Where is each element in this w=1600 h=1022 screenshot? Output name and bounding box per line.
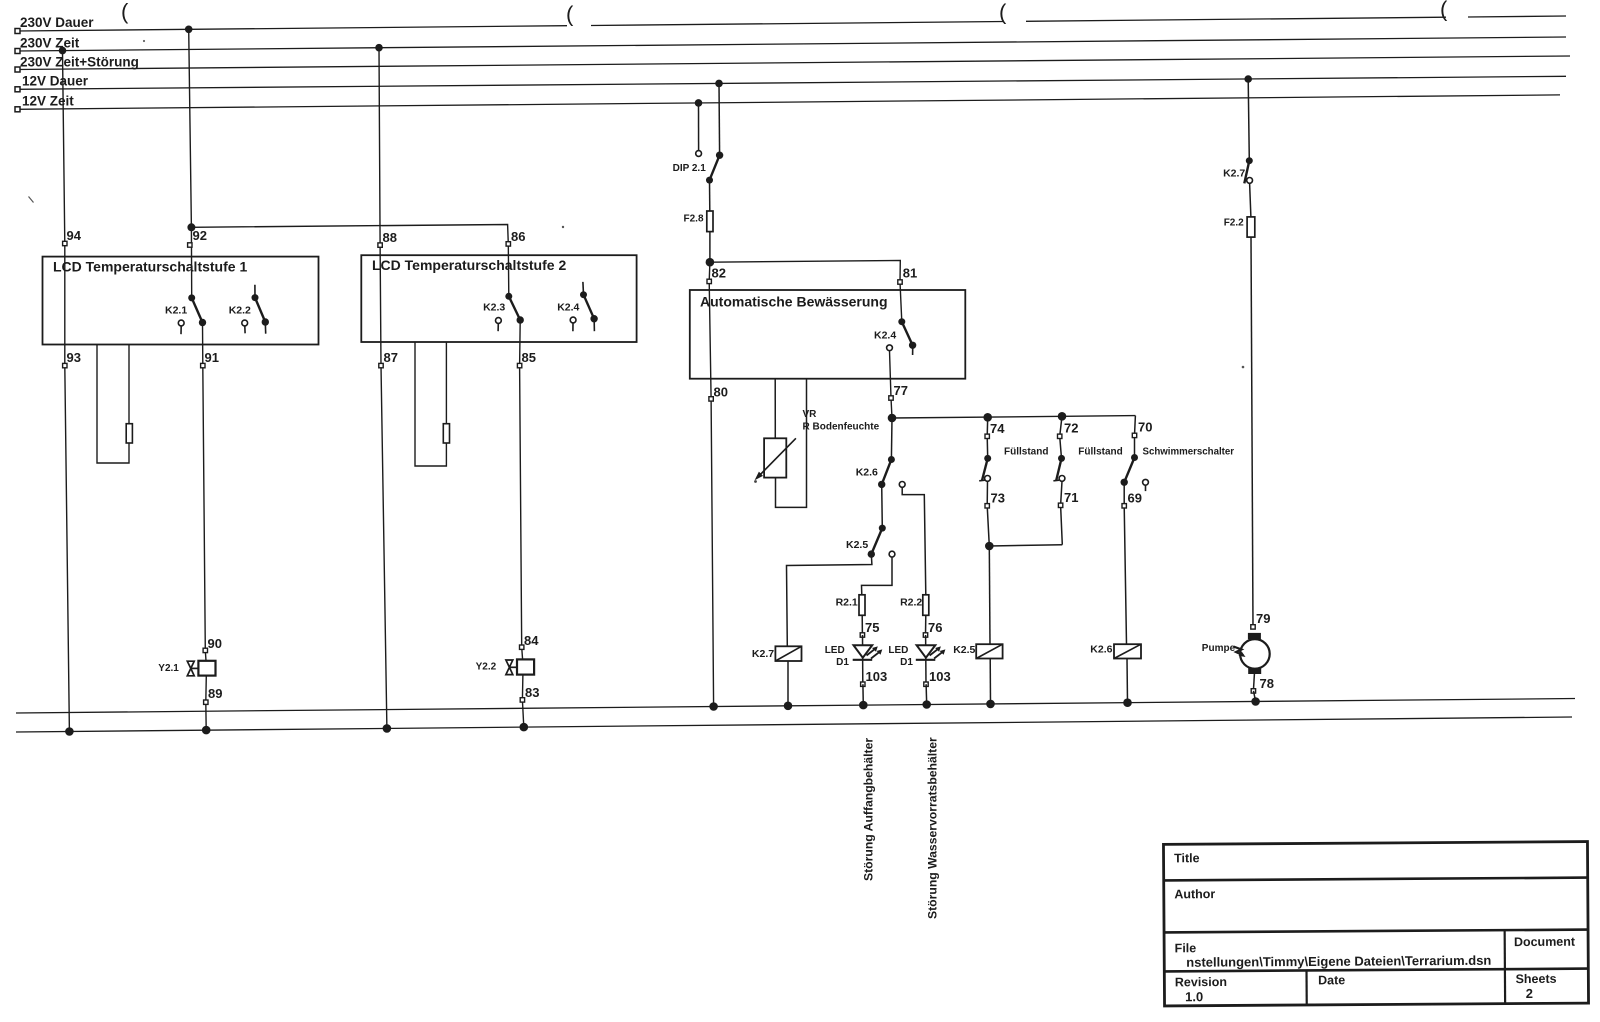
- svg-text:84: 84: [524, 633, 539, 648]
- svg-text:K2.3: K2.3: [483, 302, 505, 314]
- svg-text:D1: D1: [900, 657, 913, 668]
- svg-text:93: 93: [67, 350, 81, 365]
- svg-text:(: (: [121, 0, 129, 24]
- svg-text:Schwimmerschalter: Schwimmerschalter: [1143, 447, 1235, 458]
- svg-text:K2.5: K2.5: [846, 539, 868, 551]
- svg-text:Störung Auffangbehälter: Störung Auffangbehälter: [862, 738, 876, 881]
- svg-text:K2.4: K2.4: [557, 302, 579, 314]
- svg-text:12V Zeit: 12V Zeit: [22, 94, 74, 109]
- svg-text:91: 91: [205, 350, 219, 365]
- svg-text:75: 75: [865, 620, 879, 635]
- svg-text:71: 71: [1064, 490, 1078, 505]
- svg-text:Pumpe: Pumpe: [1202, 643, 1236, 654]
- svg-text:K2.2: K2.2: [229, 305, 251, 317]
- svg-text:73: 73: [991, 491, 1005, 506]
- svg-text:1.0: 1.0: [1185, 989, 1203, 1004]
- svg-text:76: 76: [928, 620, 942, 635]
- svg-text:72: 72: [1064, 421, 1078, 436]
- svg-text:78: 78: [1260, 676, 1274, 691]
- svg-text:(: (: [566, 2, 574, 27]
- svg-text:88: 88: [383, 230, 397, 245]
- svg-text:VR: VR: [803, 409, 818, 420]
- svg-text:74: 74: [990, 421, 1005, 436]
- svg-text:LED: LED: [888, 645, 908, 656]
- svg-text:79: 79: [1256, 611, 1270, 626]
- svg-text:Title: Title: [1174, 851, 1200, 865]
- svg-text:103: 103: [866, 669, 888, 684]
- svg-text:(: (: [999, 0, 1007, 25]
- svg-text:Sheets: Sheets: [1516, 972, 1557, 986]
- svg-text:Document: Document: [1514, 935, 1576, 949]
- svg-text:R2.2: R2.2: [900, 597, 922, 609]
- svg-text:230V Zeit+Störung: 230V Zeit+Störung: [20, 55, 139, 70]
- svg-text:LED: LED: [825, 645, 845, 656]
- svg-text:K2.1: K2.1: [165, 305, 187, 317]
- svg-text:2: 2: [1526, 986, 1533, 1001]
- svg-text:R Bodenfeuchte: R Bodenfeuchte: [803, 422, 880, 433]
- svg-text:K2.7: K2.7: [752, 648, 774, 660]
- svg-text:LCD Temperaturschaltstufe 2: LCD Temperaturschaltstufe 2: [372, 257, 566, 273]
- svg-text:Störung Wasservorratsbehälter: Störung Wasservorratsbehälter: [926, 737, 940, 919]
- svg-text:85: 85: [522, 350, 536, 365]
- svg-text:K2.7: K2.7: [1223, 168, 1245, 180]
- svg-text:LCD Temperaturschaltstufe 1: LCD Temperaturschaltstufe 1: [53, 259, 247, 275]
- svg-text:230V Zeit: 230V Zeit: [20, 36, 80, 51]
- svg-text:80: 80: [714, 385, 728, 400]
- svg-text:Date: Date: [1318, 973, 1345, 987]
- svg-text:Automatische Bewässerung: Automatische Bewässerung: [700, 294, 888, 310]
- svg-text:File: File: [1175, 941, 1197, 955]
- svg-text:70: 70: [1138, 420, 1152, 435]
- svg-text:D1: D1: [836, 657, 849, 668]
- svg-text:F2.2: F2.2: [1224, 218, 1244, 229]
- svg-text:92: 92: [193, 228, 207, 243]
- svg-text:230V Dauer: 230V Dauer: [20, 15, 94, 30]
- svg-text:F2.8: F2.8: [684, 214, 704, 225]
- svg-text:Füllstand: Füllstand: [1004, 447, 1048, 458]
- svg-text:103: 103: [929, 669, 951, 684]
- svg-text:K2.5: K2.5: [953, 644, 975, 656]
- svg-text:Author: Author: [1174, 887, 1215, 901]
- svg-text:K2.6: K2.6: [1090, 644, 1112, 656]
- svg-text:R2.1: R2.1: [836, 597, 858, 609]
- svg-text:Y2.1: Y2.1: [158, 663, 179, 674]
- svg-text:Füllstand: Füllstand: [1078, 447, 1122, 458]
- svg-text:nstellungen\Timmy\Eigene Datei: nstellungen\Timmy\Eigene Dateien\Terrari…: [1186, 953, 1491, 970]
- svg-text:89: 89: [208, 686, 222, 701]
- svg-text:82: 82: [712, 266, 726, 281]
- svg-text:K2.6: K2.6: [856, 467, 878, 479]
- svg-text:12V Dauer: 12V Dauer: [22, 74, 89, 89]
- svg-text:86: 86: [511, 229, 525, 244]
- svg-text:94: 94: [67, 228, 82, 243]
- svg-text:83: 83: [525, 685, 539, 700]
- svg-text:(: (: [1440, 0, 1448, 22]
- svg-text:Revision: Revision: [1175, 975, 1227, 989]
- svg-text:81: 81: [903, 266, 917, 281]
- svg-text:69: 69: [1128, 491, 1142, 506]
- svg-text:87: 87: [384, 350, 398, 365]
- svg-text:77: 77: [894, 383, 908, 398]
- svg-text:K2.4: K2.4: [874, 330, 896, 342]
- svg-text:Y2.2: Y2.2: [476, 662, 497, 673]
- svg-text:90: 90: [208, 636, 222, 651]
- svg-text:DIP 2.1: DIP 2.1: [673, 163, 707, 174]
